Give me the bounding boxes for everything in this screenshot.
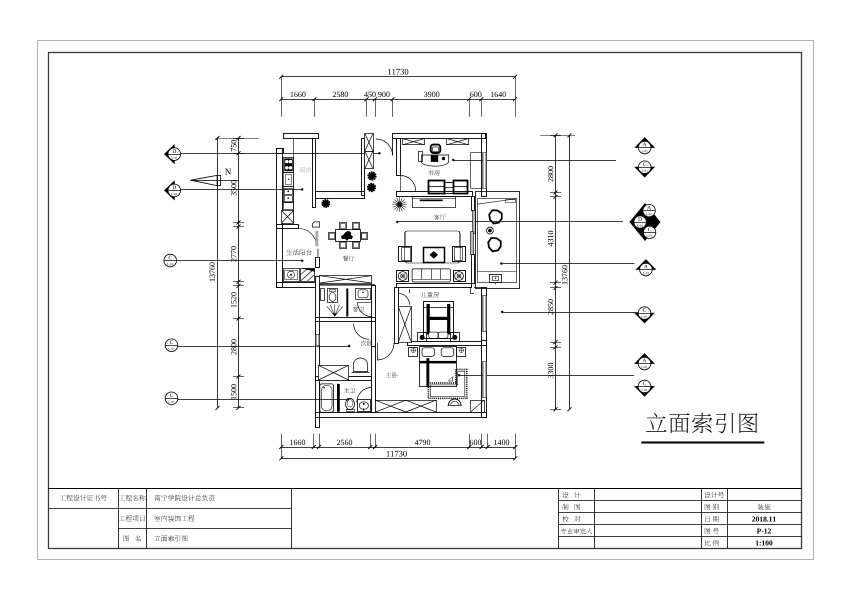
plant entry 2 [367, 183, 376, 192]
masterbath toilet [346, 398, 355, 409]
dim right overall text 13760 [562, 265, 567, 284]
drawing title 立面索引图 [646, 413, 667, 432]
study shelf 2 [445, 183, 454, 194]
title block label 比例 [705, 540, 711, 546]
title block label 图名 [124, 535, 130, 541]
title block value 室内装饰工程 [154, 515, 160, 521]
master wardrobe X [376, 401, 437, 413]
study shelf 3 [454, 181, 468, 194]
children bed pillows [429, 332, 438, 338]
room label 主卧 [386, 372, 392, 377]
elevation marker right C2 down [635, 313, 654, 323]
dim bottom overall line [281, 458, 515, 460]
living carpet outline [404, 231, 460, 263]
title block label 图别 [705, 504, 711, 510]
master nightstand right [457, 348, 466, 357]
leader line right 1 [453, 160, 616, 162]
door arc guestbath [358, 303, 372, 317]
wall study top [393, 134, 486, 139]
dim right lines [555, 135, 557, 409]
title block value 立面索引图 [154, 535, 160, 541]
leader line left 3 [177, 260, 303, 262]
elevation marker right C3 down [635, 386, 654, 396]
sofa 3seat [412, 269, 450, 282]
leader line left 2 [181, 189, 303, 191]
elevation marker right C1 down [635, 167, 654, 177]
door arc master [377, 343, 394, 360]
kitchen low box [284, 203, 294, 210]
leader line right 5 [459, 375, 634, 377]
wall east upper [482, 134, 487, 197]
study bay window sill [470, 153, 472, 188]
dim right segment numbers [548, 166, 553, 181]
door kitchen: swing arc [299, 229, 317, 247]
wall guestbath top line [319, 284, 375, 286]
coffee table [424, 248, 445, 263]
sofa end table right [454, 271, 466, 282]
wall living-children [397, 284, 472, 288]
title block label 日期 [705, 516, 709, 522]
entry door arc [376, 139, 393, 156]
guestbath basin [356, 289, 371, 300]
children wardrobe X [399, 307, 412, 343]
tv cabinet [413, 197, 456, 208]
wall east mid (children) [482, 288, 487, 346]
children bed corner L [418, 333, 427, 342]
study desk [421, 155, 448, 166]
wall kitchen right (spine upper) [313, 139, 316, 208]
wall kitchen top [284, 134, 319, 139]
elevation marker left D2 [165, 181, 175, 199]
column entry duct [365, 134, 374, 152]
title block value 1:100 [756, 541, 759, 546]
plant corridor flower [392, 197, 406, 211]
elevation marker left D1 [165, 145, 175, 163]
master corner box [471, 401, 485, 413]
room label 生活阳台 [286, 249, 292, 255]
title block label 设计号 [704, 492, 710, 498]
wall corridor left [372, 286, 376, 347]
dim left segment numbers [231, 140, 236, 151]
north arrow letter N [225, 169, 231, 175]
wall masterbath right [372, 347, 376, 413]
armchair left [399, 247, 412, 262]
elevation marker cluster diamond [630, 204, 660, 241]
dim top overall line [281, 76, 515, 78]
wall kitchen left [277, 149, 283, 288]
secondbed basin arch [354, 358, 368, 372]
wall balcony-life bottom [277, 283, 316, 288]
title block label 专业审定人 [561, 528, 567, 534]
dining table set [336, 230, 361, 242]
balcony plant 2 [488, 238, 501, 251]
drawing title underline [641, 442, 764, 444]
masterbath partition [337, 384, 340, 412]
leader line left 5 [178, 399, 348, 401]
window box study top 2 [447, 139, 469, 145]
door arc study [400, 176, 416, 192]
title block label 工程设计证书号 [60, 495, 66, 500]
dim left lines [238, 138, 240, 408]
kitchen sink [284, 187, 294, 203]
sofa end table left [397, 271, 409, 282]
title block value P-12 [757, 529, 761, 534]
wall study bottom [397, 192, 473, 197]
masterbath tub [320, 384, 334, 412]
cabinet X entry shoe [320, 276, 372, 284]
balcony small pot [487, 227, 494, 234]
dim left overall text 13760 [209, 262, 214, 281]
wall corridor right (children west) [395, 288, 399, 344]
door kitchen: leaf [315, 231, 318, 247]
east balcony railing diagonal [477, 199, 516, 204]
kitchen cabinet X [282, 211, 294, 224]
wall plan bottom [316, 413, 487, 418]
room label 次卧 [361, 340, 366, 345]
kitchen stove [284, 158, 294, 173]
title block label 制图 [562, 504, 568, 510]
title block label 工程名称 [119, 495, 125, 500]
wall living-balcony stub top [472, 197, 475, 211]
title block value 2018.11 [752, 517, 755, 522]
title block grid [49, 488, 802, 490]
balcony plant 1 [489, 210, 502, 223]
plant kitchen wall [322, 199, 331, 208]
master nightstand left [409, 348, 418, 357]
life balcony hatch box [301, 269, 315, 282]
elevation marker right A1 up [635, 138, 654, 148]
page outer border [38, 41, 814, 560]
leader line left 4 [178, 346, 349, 348]
door kitchen: spine stub [313, 222, 320, 227]
elevation marker cluster circle A [643, 204, 655, 216]
children bed corner R [451, 333, 460, 342]
elevation marker right A3 up [635, 354, 654, 364]
children bed frame [424, 302, 454, 339]
guestbath shower fan [327, 304, 343, 316]
wall kitchen-balcony divider [277, 225, 299, 229]
room label 客厅 [434, 214, 440, 220]
east balcony outline [476, 192, 520, 289]
door arc masterbath [357, 388, 372, 403]
page inner border [49, 53, 802, 549]
wall spine lower (west exterior) [316, 277, 320, 428]
room label 儿童房 [421, 292, 427, 298]
title block value 装施 [758, 504, 764, 510]
room label 书房 [428, 170, 433, 176]
dim bottom segment line [281, 447, 515, 449]
carpet-armchair connector right [459, 231, 461, 246]
master stool [449, 399, 461, 405]
master bed [420, 347, 457, 387]
title block label 设计 [562, 492, 568, 498]
wall children bottom / master top [408, 342, 482, 346]
elevation marker left C3 down [171, 407, 173, 409]
study chair [431, 145, 441, 153]
wall study left [397, 139, 401, 176]
title block value 南宁学院设计总负责 [154, 495, 160, 501]
wall guestbath bottom [316, 318, 376, 322]
title block label 图号 [705, 528, 711, 534]
guestbath toilet [328, 289, 338, 303]
washing machine [284, 269, 300, 282]
dim top segment line [281, 99, 515, 101]
kitchen counter edge [293, 139, 295, 223]
door arc secondbed [354, 324, 370, 340]
armchair right [453, 247, 466, 262]
elevation marker cluster circle D [634, 216, 646, 228]
elevation marker right A2 up [636, 260, 655, 270]
leader line right 2 [397, 221, 623, 223]
wall secondbed bottom / masterbath top [316, 377, 372, 381]
leader line right 3 [501, 263, 634, 265]
dim top segment numbers [291, 92, 294, 97]
window spine west [316, 335, 320, 346]
wall living-children step [470, 287, 472, 294]
spine slider panel [317, 249, 319, 258]
spine wall mid [316, 258, 320, 268]
wall kitchen left top step [277, 149, 284, 154]
carpet-armchair connector left [405, 231, 407, 246]
sliding door east balcony [473, 211, 476, 234]
window east study [483, 153, 487, 189]
leader line left 1 [181, 153, 380, 155]
masterbath basin [358, 400, 371, 412]
balcony ac unit [490, 275, 502, 283]
room label 厨房 [300, 167, 312, 173]
dim bottom segment numbers [290, 440, 293, 445]
master chaise [428, 370, 466, 399]
dim top overall text 11730 [388, 69, 391, 75]
kitchen mid box [284, 173, 294, 187]
door arc children [398, 293, 410, 305]
study shelf 1 [429, 181, 445, 194]
secondbed wardrobe X [319, 366, 349, 381]
guestbath divider [346, 289, 348, 317]
east balcony inner bottom line [477, 271, 516, 273]
children bed posts [427, 304, 430, 335]
elevation marker cluster circle C [643, 226, 655, 238]
guestbath small box [321, 289, 325, 301]
elevation marker left C1 down [169, 270, 171, 272]
window east children [483, 296, 487, 332]
study monitor [431, 155, 438, 162]
wall entry recess east [362, 139, 365, 196]
north arrow [191, 175, 217, 185]
plant entry 1 [368, 171, 377, 180]
window east master [483, 362, 487, 398]
dim bottom overall text 11730 [387, 451, 390, 457]
elevation marker left C2 down [171, 354, 173, 356]
title block label 工程项目 [119, 516, 125, 521]
wall living-balcony stub bottom [472, 255, 475, 284]
leader line right 4 [502, 312, 638, 314]
room label 餐厅 [343, 256, 349, 262]
room label 主卫 [344, 388, 349, 393]
study side cabinet [419, 152, 423, 162]
window box study top 1 [403, 139, 425, 145]
wall entry hall top [316, 192, 365, 199]
wall east lower (master) [482, 341, 487, 418]
title block label 校对 [562, 516, 568, 522]
room label 客卫 [353, 306, 359, 311]
